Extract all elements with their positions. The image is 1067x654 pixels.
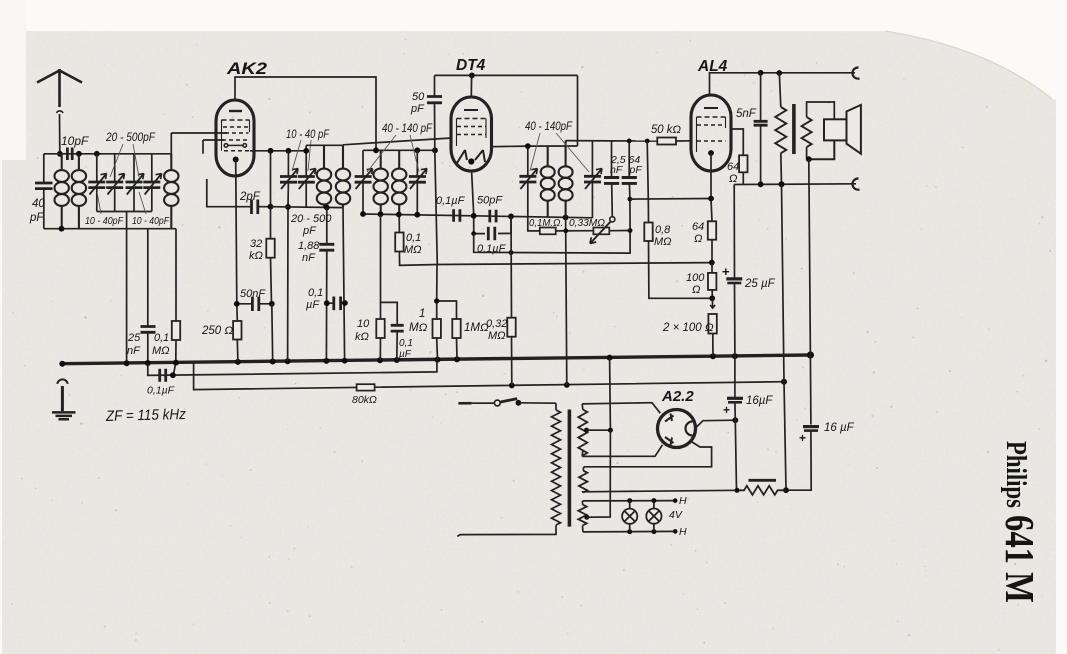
wire: AL4 cathode down chain [711, 153, 712, 221]
svg-text:100: 100 [686, 272, 705, 284]
svg-text:kΩ: kΩ [249, 250, 263, 262]
svg-text:AK2: AK2 [226, 60, 267, 78]
svg-text:DT4: DT4 [456, 57, 486, 74]
capacitor 16uF electrolytic (left) [727, 356, 743, 490]
coil L5 (IF1 secondary) [336, 145, 350, 207]
resistor 0,1MOhm (diode load horizontal) [528, 217, 594, 234]
coil L6 (osc tank) [374, 150, 388, 214]
svg-text:641 M: 641 M [997, 515, 1043, 603]
chassis bus (main) [62, 355, 810, 364]
tube AK2 envelope [216, 100, 254, 176]
wire: lamp stubs [630, 501, 654, 532]
wire: 0,32M chain down to line3 [510, 216, 513, 385]
svg-text:0,8: 0,8 [655, 224, 671, 236]
capacitor 1,88nF [319, 208, 334, 361]
rectifier filament secondary [579, 467, 737, 493]
wire: oscillator top rail [363, 149, 437, 151]
svg-text:2pF: 2pF [239, 191, 261, 203]
Philips 641 M page title (rotated) [997, 441, 1043, 603]
node [94, 151, 100, 157]
capacitor 25nF [141, 229, 156, 364]
resistor 50kOhm (grid stopper) [657, 138, 676, 145]
svg-text:H: H [679, 526, 687, 538]
svg-text:0,1µF: 0,1µF [147, 385, 175, 397]
capacitor 50nF [237, 297, 272, 311]
node [59, 226, 65, 232]
potentiometer 0,33MOhm (volume) [590, 217, 630, 244]
node: line3 junctions [509, 379, 787, 389]
wire: IF1 secondary return to bus [343, 208, 345, 361]
svg-text:pF: pF [410, 103, 425, 115]
wire: AVC line to AL4 cathode chain [437, 263, 711, 265]
resistor 32kOhm [266, 239, 274, 258]
resistor 64 Ohm (screen) [739, 155, 747, 172]
coil L2 (antenna secondary) [72, 154, 86, 229]
svg-text:16µF: 16µF [746, 395, 773, 407]
svg-text:250 Ω: 250 Ω [201, 325, 233, 337]
node: 64pF to cathode line [628, 197, 633, 202]
svg-text:MΩ: MΩ [409, 322, 428, 334]
field coil (zigzag) [775, 73, 786, 184]
wire: lamp bottom lead [583, 530, 675, 533]
HV secondary winding [578, 404, 587, 457]
svg-text:32: 32 [250, 238, 262, 250]
wire: 32k/50nF node to bus [271, 304, 274, 362]
svg-text:nF: nF [610, 164, 623, 176]
svg-text:10: 10 [357, 318, 370, 330]
resistor 1MOhm (second) [452, 319, 460, 359]
tube DT4 internal electrodes [457, 110, 487, 163]
hum resistor with slider bar [737, 480, 786, 495]
wire: HV top to A2.2 anode 1 [582, 403, 660, 414]
variable capacitor 20-500pF (gang 1) [88, 154, 106, 212]
svg-text:10 - 40 pF: 10 - 40 pF [286, 129, 330, 141]
coil L8 (IF2 primary) [541, 146, 555, 218]
resistor 250 Ohm [233, 321, 241, 340]
wire: A2.2 filament return [584, 440, 712, 467]
mains switch [458, 399, 517, 406]
wire: HV tap to bus [587, 358, 611, 431]
variable capacitor 40-140pF (osc 1) [355, 150, 373, 214]
capacitor 2pF [207, 151, 271, 214]
node: antenna junction [57, 151, 63, 157]
tube DT4 envelope [451, 97, 492, 171]
svg-text:40 - 140 pF: 40 - 140 pF [382, 123, 433, 135]
svg-text:0,1µF: 0,1µF [436, 195, 466, 207]
svg-text:80kΩ: 80kΩ [352, 394, 377, 406]
node: lamp winding tap [584, 515, 589, 520]
svg-text:Philips: Philips [1000, 441, 1031, 508]
svg-text:20 - 500pF: 20 - 500pF [105, 130, 155, 144]
capacitor 0,1uF (cathode bypass) [391, 325, 404, 360]
wire: lamp tap to HV tap vertical [587, 430, 611, 517]
capacitor 0,1uF (diode load) [454, 209, 460, 222]
output transformer core [792, 104, 796, 154]
svg-text:64: 64 [727, 161, 739, 173]
svg-text:Ω: Ω [729, 173, 737, 185]
svg-text:0,33MΩ: 0,33MΩ [569, 217, 605, 229]
capacitor 25uF electrolytic [726, 185, 742, 357]
svg-text:0,1: 0,1 [406, 232, 421, 244]
variable capacitor 10-40pF trimmer 2 [143, 154, 161, 212]
svg-text:pF: pF [629, 164, 643, 176]
wire: DT4 cathode lead [472, 171, 474, 234]
wire: subrail drop to chassis bus [126, 212, 128, 364]
svg-text:4V: 4V [669, 509, 683, 521]
wire: field coil return vertical [782, 184, 787, 490]
lamp secondary winding [578, 501, 586, 532]
svg-text:16 µF: 16 µF [824, 422, 855, 434]
svg-text:25: 25 [127, 332, 141, 344]
svg-text:0,1M.Ω.: 0,1M.Ω. [529, 217, 563, 229]
wire: AK2 cathode line [236, 160, 238, 322]
tube A2.2 filament bump [686, 422, 693, 436]
svg-text:Ω: Ω [692, 284, 700, 296]
resistor 100 Ohm [708, 273, 716, 290]
svg-text:+: + [722, 264, 730, 279]
svg-text:MΩ: MΩ [152, 345, 170, 357]
svg-text:MΩ: MΩ [488, 330, 506, 342]
svg-text:A2.2: A2.2 [661, 388, 694, 405]
svg-text:50: 50 [412, 91, 425, 103]
svg-text:25 µF: 25 µF [744, 278, 776, 290]
resistor 0,8MOhm [644, 141, 712, 298]
antenna [37, 69, 82, 154]
svg-text:10pF: 10pF [61, 134, 89, 148]
wire: grid line B to AK2 [203, 140, 224, 154]
svg-text:pF: pF [302, 225, 317, 237]
variable capacitor 10-40pF trimmer 1 [126, 154, 144, 212]
variable capacitor 20-500pF (gang 2) [106, 154, 124, 212]
capacitor 40pF [35, 154, 53, 229]
wire: AL4 screen tap to 64 Ohm [731, 129, 743, 155]
capacitor 64pF [622, 141, 637, 231]
svg-text:+: + [723, 403, 730, 417]
wire: grid/diode bottom line B [363, 214, 592, 218]
wire: IF2 secondary return to line3 [566, 217, 567, 385]
node: HV center tap [584, 428, 589, 433]
svg-text:1MΩ: 1MΩ [464, 322, 489, 334]
resistor 0,32MOhm [507, 318, 515, 337]
svg-text:kΩ: kΩ [355, 331, 369, 343]
wire: line2 (decoupling return) [148, 360, 437, 376]
tube AL4 envelope [691, 95, 731, 171]
ground symbol [52, 379, 76, 419]
coil L4 (IF1 primary) [317, 145, 331, 207]
svg-text:40: 40 [32, 198, 45, 210]
wire: IF2 primary top rail [528, 145, 578, 147]
wire: input top rail [44, 153, 172, 155]
wire: A2.2 filament to 16uF node [696, 420, 736, 428]
svg-text:0,1: 0,1 [154, 332, 169, 344]
wire: to AL4 cathode [630, 198, 711, 201]
wire: IF1 bottom rail (joins 2pF node line) [271, 206, 344, 209]
resistor 0,1MOhm (AVC input) [172, 229, 180, 376]
svg-text:0,32: 0,32 [486, 318, 507, 330]
capacitor 50pF (osc padding) [427, 75, 442, 264]
output terminal (top) [852, 67, 859, 78]
svg-text:1,88: 1,88 [298, 240, 320, 252]
wire: IF2 secondary top rail [566, 140, 612, 142]
wire: switch to transformer primary [518, 402, 556, 404]
tube A2.2 (rectifier) [658, 410, 696, 448]
svg-text:nF: nF [302, 252, 316, 264]
wire: varcap bottom subrail [97, 211, 152, 213]
variable capacitor 40-140pF (IF2 secondary) [584, 141, 602, 218]
capacitor 16uF electrolytic (right) [786, 427, 819, 491]
svg-text:MΩ: MΩ [404, 244, 422, 256]
wire: line3 (bias line) [194, 364, 784, 390]
transformer primary winding [457, 403, 560, 536]
svg-text:MΩ: MΩ [654, 236, 672, 248]
svg-text:ZF = 115 kHz: ZF = 115 kHz [105, 406, 187, 425]
variable capacitor 10-40pF (IF1 primary) [280, 151, 298, 361]
variable capacitor 40-140pF (osc 2) [409, 150, 427, 214]
node [76, 151, 82, 157]
svg-text:0,1: 0,1 [308, 287, 323, 299]
speaker [809, 105, 861, 159]
output terminal (bottom) [852, 178, 859, 189]
svg-text:0,1: 0,1 [399, 338, 413, 349]
wire: DT4 diode line to IF2 [492, 145, 528, 148]
wire: AF top line to 50k [612, 140, 658, 142]
dial lamp 2 [646, 508, 661, 523]
capacitor 0,1uF on line2 [160, 369, 166, 382]
svg-text:1: 1 [419, 308, 425, 320]
coil L7 (osc feedback) [392, 150, 406, 214]
wire: DT4 anode lead [470, 75, 472, 97]
wire: DT4 top line drop [577, 75, 579, 146]
coil L1 (antenna primary) [55, 154, 69, 229]
svg-text:2 × 100 Ω: 2 × 100 Ω [662, 322, 714, 334]
tube A2.2 internal anodes [665, 414, 674, 446]
wire: IF1 top rail [306, 144, 343, 146]
tube AL4 internal electrodes [697, 108, 726, 152]
variable capacitor 40-140pF (IF2 primary) [519, 146, 537, 217]
coil L3 (RF coupling) [164, 154, 178, 229]
svg-text:5nF: 5nF [736, 108, 757, 120]
wire: AK2 anode to oscillator [235, 77, 376, 150]
resistor 80kOhm on line3 [357, 384, 375, 390]
node [732, 417, 738, 423]
wire: output bottom line [734, 183, 856, 186]
resistor 64 Ohm (cathode) [708, 221, 716, 239]
wire: HV bottom to A2.2 anode 2 [582, 445, 662, 457]
variable capacitor 10-40pF (IF1 secondary) [298, 145, 316, 207]
wire: IF1 grid line to DT4 [343, 138, 451, 145]
resistor 10kOhm [376, 214, 397, 360]
svg-text:50 kΩ: 50 kΩ [651, 124, 681, 136]
resistor 2x100 Ohm [708, 298, 716, 356]
svg-text:µF: µF [399, 349, 412, 360]
wire: grid line A to AK2 [171, 133, 227, 154]
dial lamp 1 [622, 509, 637, 524]
capacitor 50pF (IF filter) [490, 210, 496, 223]
svg-text:64: 64 [692, 221, 704, 233]
svg-text:Ω: Ω [694, 233, 702, 245]
svg-text:10 - 40pF: 10 - 40pF [85, 215, 123, 227]
coil L9 (IF2 secondary) [559, 141, 573, 218]
node: bus junctions [59, 351, 814, 366]
transformer core [568, 410, 572, 527]
capacitor 5nF (tone) [754, 73, 768, 184]
svg-text:pF: pF [29, 212, 44, 224]
capacitor 10pF (series antenna) [67, 148, 72, 161]
svg-text:20 - 500: 20 - 500 [290, 213, 332, 225]
svg-text:+: + [799, 431, 806, 445]
wire: diode return line [474, 231, 630, 254]
svg-text:40 - 140pF: 40 - 140pF [525, 121, 573, 133]
svg-text:µF: µF [306, 299, 320, 311]
wire: DT4 anode top line [435, 74, 578, 76]
wire: input bottom rail [44, 228, 176, 230]
wire: AK2 screen rail [250, 150, 306, 152]
capacitor 0,1uF (lower loop) [474, 216, 511, 240]
wire: lamp top lead [583, 500, 676, 502]
tube AK2 internal electrodes [222, 111, 252, 151]
wire: speaker return to bus and 16uF [809, 159, 811, 424]
svg-text:50nF: 50nF [240, 288, 266, 300]
wire: AL4 anode to top line [710, 73, 856, 95]
capacitor 2,5nF (coupling) [604, 141, 619, 217]
svg-text:nF: nF [127, 345, 141, 357]
speaker voice winding (zigzag) [802, 102, 835, 159]
resistor 0,1MOhm (osc grid leak) [395, 233, 403, 252]
wire: 50k to AL4 grid [676, 140, 691, 142]
svg-text:10 - 40pF: 10 - 40pF [132, 215, 169, 227]
capacitor 0,1uF (osc cathode) [327, 297, 345, 311]
svg-text:50pF: 50pF [477, 195, 503, 207]
node [170, 372, 176, 378]
resistor 1MOhm (first) [433, 265, 457, 360]
svg-text:H: H [679, 495, 687, 507]
